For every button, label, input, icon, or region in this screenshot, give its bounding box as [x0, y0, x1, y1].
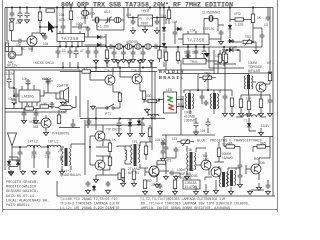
wire	[145, 162, 157, 182]
svg-text:5+1.-150: 5+1.-150	[96, 25, 109, 29]
coil T4	[145, 44, 152, 50]
coil L3	[81, 10, 88, 16]
diode D6 varicap	[228, 24, 232, 31]
svg-text:104: 104	[16, 21, 22, 25]
resistor	[108, 157, 111, 166]
svg-text:ADJ: ADJ	[104, 10, 110, 14]
ground	[141, 58, 146, 63]
capacitor	[153, 44, 159, 49]
resistor 2k2	[82, 70, 91, 73]
svg-text:104: 104	[155, 138, 161, 142]
wire audio box top	[5, 70, 80, 117]
svg-text:FTB: FTB	[62, 84, 68, 88]
bottom notes line 1	[60, 197, 250, 210]
diode D10	[128, 121, 132, 128]
svg-text:20B: 20B	[259, 161, 265, 165]
transistor Q2	[105, 75, 115, 85]
resistor	[143, 180, 146, 189]
capacitor	[186, 49, 191, 55]
speaker small	[118, 171, 125, 183]
capacitor	[121, 50, 126, 56]
ground	[117, 132, 122, 137]
wire chain	[106, 46, 164, 48]
switch PTT	[100, 104, 120, 109]
svg-text:13,8V: 13,8V	[261, 124, 270, 128]
resistor	[144, 146, 147, 155]
svg-text:10u: 10u	[22, 77, 28, 81]
resistor	[222, 52, 225, 61]
diode D7	[228, 39, 235, 43]
capacitor	[18, 150, 23, 156]
svg-text:TR01: TR01	[190, 60, 198, 64]
wire bottom rail	[57, 181, 275, 196]
ground	[194, 190, 199, 195]
capacitor 100n	[169, 171, 175, 176]
svg-text:18T L1: 18T L1	[48, 140, 58, 144]
svg-text:2k2: 2k2	[82, 67, 87, 71]
capacitor ecap	[205, 120, 210, 127]
capacitor	[141, 50, 146, 56]
capacitor right edge	[266, 183, 271, 189]
wire	[96, 120, 118, 178]
wire	[165, 135, 167, 174]
diode D14	[228, 48, 235, 52]
resistor	[230, 98, 233, 107]
svg-text:OUT: OUT	[146, 17, 153, 21]
svg-text:TA7358: TA7358	[187, 38, 205, 43]
capacitor	[223, 94, 228, 100]
wire	[246, 147, 270, 181]
ground	[230, 112, 235, 117]
wire	[184, 74, 232, 114]
wire	[222, 50, 240, 62]
svg-text:LM386: LM386	[22, 94, 35, 99]
capacitor 100n	[46, 79, 51, 85]
trimmer VC1	[104, 17, 113, 24]
svg-text:10u: 10u	[8, 97, 14, 101]
capacitor	[158, 183, 163, 189]
resistor	[105, 50, 108, 59]
ground	[194, 131, 199, 136]
wire	[103, 140, 110, 170]
svg-text:1G: 1G	[264, 23, 269, 27]
capacitor	[174, 147, 179, 153]
diode D5	[176, 27, 183, 31]
op-amp U3 TA7358 RX	[183, 34, 209, 45]
svg-text:102: 102	[215, 54, 221, 58]
svg-text:330: 330	[146, 94, 152, 98]
svg-text:1950MC: 1950MC	[184, 119, 197, 123]
capacitor	[6, 77, 11, 84]
wire rail blue	[224, 136, 273, 138]
svg-text:TR2: TR2	[245, 35, 251, 39]
svg-text:548: 548	[33, 125, 39, 129]
svg-text:+MCKE SW10: +MCKE SW10	[33, 61, 54, 65]
capacitor C6	[61, 24, 66, 30]
inductor L2	[27, 145, 41, 147]
svg-text:BALUN: BALUN	[70, 173, 81, 177]
ground	[186, 58, 191, 63]
wire bus y118.5	[80, 118, 165, 120]
wire	[92, 8, 124, 31]
amplifier U4 LM386	[19, 90, 40, 102]
diode D4	[162, 42, 166, 49]
ground	[158, 190, 163, 195]
svg-text:1.10B: 1.10B	[235, 23, 243, 27]
capacitor	[14, 92, 19, 98]
wire	[196, 180, 231, 190]
transistor Q3	[132, 74, 142, 84]
diode D11	[92, 185, 96, 192]
capacitor C3	[24, 11, 29, 18]
wire	[117, 142, 152, 168]
wire	[149, 125, 151, 142]
ground	[268, 112, 273, 117]
ground	[61, 101, 66, 106]
ground	[259, 112, 264, 117]
svg-text:174: 174	[172, 137, 178, 141]
svg-text:47A: 47A	[227, 142, 234, 146]
ground	[219, 40, 224, 45]
resistor	[217, 148, 220, 157]
ground	[112, 58, 117, 63]
capacitor C5	[43, 34, 48, 40]
wire	[107, 47, 160, 63]
svg-text:IN: IN	[139, 17, 142, 21]
transformer T3 IF	[210, 93, 219, 109]
ground	[132, 182, 137, 187]
resistor R4	[5, 43, 8, 52]
wire	[44, 85, 60, 99]
wire	[159, 171, 180, 178]
svg-text:+PCB: +PCB	[141, 9, 149, 13]
wire	[58, 47, 96, 59]
resistor	[164, 52, 167, 61]
microphone MIC	[8, 47, 16, 59]
wire	[90, 125, 110, 175]
wire	[96, 101, 160, 120]
capacitor 27p	[32, 150, 37, 156]
capacitor	[238, 163, 243, 169]
svg-text:T1: T1	[244, 119, 248, 123]
ground	[21, 170, 26, 175]
svg-text:T1,T2,T3,T4=TOROIDES LAMPADA E: T1,T2,T3,T4=TOROIDES LAMPADA ELETRONICA …	[140, 197, 225, 201]
wire bus	[164, 46, 262, 48]
ground	[44, 131, 49, 136]
capacitor	[260, 33, 265, 39]
ground	[194, 58, 199, 63]
ground	[25, 19, 30, 24]
wire	[90, 68, 140, 93]
wire	[252, 42, 257, 49]
capacitor	[71, 122, 76, 128]
wire right rail	[272, 8, 274, 197]
trimmer TR3	[199, 75, 216, 82]
wire	[241, 8, 270, 99]
wire	[253, 8, 268, 43]
transistor Q10 final	[251, 164, 261, 174]
ground	[121, 182, 126, 187]
svg-text:VFO: VFO	[234, 12, 241, 16]
wire rail A	[5, 67, 157, 69]
ground row above project text	[9, 171, 14, 176]
ground	[155, 183, 160, 188]
resistor	[108, 143, 111, 152]
speaker SPK	[60, 88, 69, 103]
svg-text:2T: 2T	[58, 149, 62, 153]
svg-text:104: 104	[190, 29, 196, 33]
ground filled	[204, 53, 210, 58]
svg-text:PROJETO:SR4IUR.: PROJETO:SR4IUR.	[6, 181, 38, 185]
ground	[86, 189, 91, 194]
crystal X1	[94, 17, 100, 23]
ground	[155, 29, 160, 34]
resistor	[251, 14, 254, 23]
resistor L	[148, 99, 157, 102]
ground	[248, 190, 253, 195]
svg-text:11.0592MHZ: 11.0592MHZ	[202, 11, 220, 15]
ground	[185, 175, 190, 180]
wire top rail	[5, 7, 273, 9]
capacitor	[185, 54, 191, 59]
resistor	[118, 93, 121, 102]
transistor Q9 BD139	[201, 160, 211, 170]
op-amp U1 TA7358	[57, 34, 85, 42]
ground	[22, 119, 27, 124]
wire	[34, 115, 46, 131]
resistor R5	[69, 11, 72, 20]
wire	[204, 19, 224, 32]
coil T3	[135, 44, 142, 50]
pins	[22, 79, 48, 106]
svg-text:104: 104	[59, 13, 65, 17]
capacitor	[219, 30, 224, 36]
svg-text:1A501B: 1A501B	[186, 174, 197, 178]
capacitor 10u	[11, 98, 16, 105]
ground	[254, 49, 259, 54]
ground	[143, 28, 148, 33]
svg-text:P=FERRITE: P=FERRITE	[52, 132, 70, 136]
resistor	[239, 99, 242, 108]
capacitor 10u	[25, 79, 30, 86]
ground	[266, 190, 271, 195]
ground	[60, 170, 65, 175]
wire	[55, 96, 88, 128]
wire	[158, 96, 183, 110]
wire	[5, 99, 66, 112]
resistor 10R	[40, 105, 49, 108]
ground	[41, 32, 46, 37]
svg-text:103: 103	[192, 51, 198, 55]
trimmer TR4	[177, 139, 194, 146]
capacitor	[108, 44, 114, 49]
svg-text:10-470R: 10-470R	[185, 185, 198, 189]
wire	[12, 147, 64, 150]
capacitor	[68, 49, 73, 55]
svg-text:47B0 59: 47B0 59	[126, 40, 138, 44]
transistor Q6	[95, 131, 105, 141]
svg-text:TF1: TF1	[132, 140, 138, 144]
capacitor ecap	[116, 121, 121, 128]
capacitor	[204, 100, 209, 106]
wire	[63, 26, 88, 37]
capacitor	[106, 181, 111, 187]
wire bus	[5, 46, 106, 48]
wire	[164, 8, 175, 59]
wire	[12, 156, 48, 170]
resistor	[218, 54, 221, 63]
svg-text:MODIFIC:WALDIR: MODIFIC:WALDIR	[6, 186, 37, 190]
wire	[175, 177, 212, 190]
svg-text:104: 104	[200, 129, 206, 133]
diode D2	[96, 43, 103, 47]
wire	[213, 30, 221, 40]
ground	[140, 132, 145, 137]
svg-text:104: 104	[172, 20, 178, 24]
capacitor C right	[266, 15, 271, 21]
wire rail B	[60, 71, 157, 73]
LED green	[167, 96, 173, 102]
capacitor row under U1	[56, 49, 61, 55]
resistor 3A5	[257, 145, 266, 148]
ground	[247, 112, 252, 117]
window border right	[277, 0, 279, 212]
ground	[34, 119, 39, 124]
capacitor	[173, 30, 178, 36]
svg-text:QUAD: QUAD	[60, 173, 70, 177]
resistor	[259, 99, 262, 108]
resistor	[142, 91, 145, 100]
ground	[143, 190, 148, 195]
resistor	[173, 180, 176, 189]
svg-text:10K: 10K	[246, 97, 253, 101]
svg-text:TA7358: TA7358	[61, 36, 79, 41]
ground	[10, 18, 15, 23]
wire	[113, 91, 144, 108]
ground	[214, 189, 219, 194]
transistor Q4	[256, 82, 266, 92]
wire	[240, 160, 259, 186]
capacitor vol	[34, 111, 39, 117]
wire 7806 to bus	[160, 18, 166, 47]
inductor L1	[47, 145, 61, 147]
wire	[166, 47, 224, 74]
svg-text:TIP 2SC20: TIP 2SC20	[106, 128, 122, 132]
wire	[24, 109, 36, 120]
coil bottom loops	[236, 115, 266, 117]
svg-text:104: 104	[43, 42, 49, 46]
svg-text:LSP19L: LSP19L	[203, 27, 215, 31]
svg-text:47B: 47B	[59, 18, 65, 22]
wire	[14, 70, 44, 96]
wire	[9, 70, 16, 104]
wire	[251, 180, 268, 190]
svg-text:LED: LED	[166, 88, 173, 92]
capacitor	[87, 119, 92, 125]
wire	[146, 142, 163, 160]
svg-text:104: 104	[161, 14, 167, 18]
wire	[40, 8, 57, 36]
ground	[121, 58, 126, 63]
ground	[116, 59, 121, 64]
svg-text:LOCAL:ALAGOINHAS BA.: LOCAL:ALAGOINHAS BA.	[6, 199, 49, 203]
wire	[253, 28, 262, 47]
box L50TH	[183, 180, 200, 189]
ground	[149, 59, 154, 64]
transistor Q7	[95, 160, 105, 170]
ground	[223, 112, 228, 117]
ground	[229, 190, 234, 195]
project text block	[6, 181, 49, 208]
svg-text:548: 548	[28, 47, 34, 51]
wire	[123, 178, 134, 183]
resistor	[167, 10, 170, 19]
wire rail right mid	[158, 70, 248, 74]
ground	[131, 58, 136, 63]
pins	[178, 31, 213, 47]
transistor Q11	[149, 166, 159, 176]
capacitor	[201, 49, 206, 56]
capacitor	[238, 173, 243, 179]
window border left	[2, 0, 4, 212]
wire	[228, 168, 240, 175]
svg-text:104: 104	[127, 118, 133, 122]
svg-text:10R: 10R	[41, 102, 48, 106]
capacitor	[131, 50, 136, 56]
wire	[214, 142, 224, 172]
capacitor row below	[112, 50, 117, 56]
capacitor ecap	[193, 121, 198, 128]
svg-text:PAIS:BRASIL.: PAIS:BRASIL.	[6, 204, 32, 208]
capacitor C2	[17, 11, 22, 18]
LED red	[168, 104, 174, 110]
ground	[105, 59, 110, 64]
svg-text:T1=100 FIO 26AWG T2,T3=50 FIO: T1=100 FIO 26AWG T2,T3=50 FIO	[60, 197, 117, 201]
transistor Q12	[211, 167, 221, 177]
resistor 1K	[25, 107, 34, 110]
svg-text:KF→: KF→	[267, 61, 274, 65]
transformer T6 out	[227, 170, 236, 186]
wire mic to base	[12, 46, 22, 55]
svg-text:37K: 37K	[151, 183, 158, 187]
svg-text:L1,L2= 1RT 20AWG 0,9CM DIAMETR: L1,L2= 1RT 20AWG 0,9CM DIAMETR	[60, 206, 119, 210]
capacitor C8	[86, 26, 91, 32]
ground	[238, 183, 243, 188]
svg-text:100p: 100p	[76, 22, 83, 26]
wire stubs	[63, 62, 151, 68]
capacitor	[268, 98, 273, 104]
svg-text:10K: 10K	[61, 111, 68, 115]
wire	[128, 8, 166, 30]
wire	[12, 31, 18, 42]
svg-text:14T L2: 14T L2	[28, 140, 38, 144]
capacitor	[94, 49, 99, 55]
resistor	[148, 128, 151, 137]
wire	[249, 118, 261, 131]
diode D1	[96, 35, 103, 39]
svg-text:DESENHO:WALDIR.: DESENHO:WALDIR.	[6, 190, 38, 194]
ground	[202, 58, 207, 63]
capacitor	[22, 111, 27, 117]
ground row	[94, 59, 99, 64]
ground	[259, 131, 264, 136]
capacitor	[86, 181, 91, 187]
svg-text:100n: 100n	[46, 79, 53, 83]
pot VOL	[58, 106, 73, 115]
svg-text:7806: 7806	[141, 22, 149, 26]
capacitor 104	[161, 140, 166, 146]
mouse cursor	[48, 21, 55, 33]
